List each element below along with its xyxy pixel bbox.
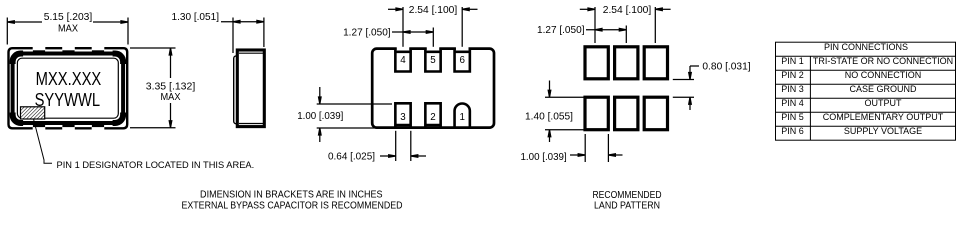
dimension 1.00 [.039] (land pad width)	[570, 134, 623, 162]
svg-text:OUTPUT: OUTPUT	[865, 98, 903, 108]
svg-text:3: 3	[400, 112, 406, 123]
dimension 1.00 [.039] (bottom view, pad height)	[317, 87, 396, 142]
svg-text:1.40 [.055]: 1.40 [.055]	[525, 112, 573, 123]
land pad top-left	[585, 47, 608, 79]
land pad bottom-left	[585, 97, 608, 130]
package inner seam rect	[17, 58, 118, 118]
svg-text:0.64 [.025]: 0.64 [.025]	[328, 152, 375, 163]
svg-text:MAX: MAX	[161, 92, 181, 103]
svg-text:4: 4	[400, 55, 406, 66]
svg-text:CASE GROUND: CASE GROUND	[849, 84, 917, 94]
svg-text:2.54 [.100]: 2.54 [.100]	[603, 5, 652, 16]
svg-text:DIMENSION IN BRACKETS ARE IN I: DIMENSION IN BRACKETS ARE IN INCHES	[200, 190, 383, 201]
svg-text:0.80 [.031]: 0.80 [.031]	[702, 61, 750, 72]
svg-text:1.30 [.051]: 1.30 [.051]	[172, 12, 220, 23]
pad 6	[455, 46, 470, 71]
svg-text:MAX: MAX	[58, 23, 78, 34]
land pad bottom-mid	[615, 97, 638, 130]
svg-text:5.15 [.203]: 5.15 [.203]	[44, 12, 93, 23]
svg-text:COMPLEMENTARY OUTPUT: COMPLEMENTARY OUTPUT	[823, 112, 944, 122]
svg-text:PIN 3: PIN 3	[781, 84, 804, 94]
pad 3	[395, 103, 410, 128]
svg-text:PIN 5: PIN 5	[781, 112, 804, 122]
svg-text:MXX.XXX: MXX.XXX	[36, 68, 102, 89]
pad 2	[425, 103, 440, 128]
pin 1 hatched designator box	[21, 107, 45, 119]
package outer outline with castellation notches	[9, 48, 128, 128]
svg-text:1.27 [.050]: 1.27 [.050]	[537, 25, 585, 36]
svg-text:6: 6	[459, 55, 465, 66]
side view lid (left thin rect)	[234, 56, 242, 124]
castellation bumps on thick rect, bottom	[33, 121, 45, 127]
svg-text:PIN CONNECTIONS: PIN CONNECTIONS	[824, 42, 908, 52]
dimension 0.64 [.025] (bottom view, pad width)	[380, 131, 426, 161]
bottom view body	[372, 49, 494, 128]
svg-text:PIN 4: PIN 4	[781, 98, 804, 108]
land pad top-right	[644, 47, 667, 79]
pad 5	[425, 46, 440, 71]
side view seam lines	[239, 52, 263, 54]
svg-text:PIN 6: PIN 6	[781, 126, 804, 136]
svg-text:LAND PATTERN: LAND PATTERN	[594, 201, 660, 212]
pad 1 (arched top = pin 1)	[455, 103, 470, 128]
package thick inner body rect	[13, 54, 124, 124]
svg-text:PIN 1 DESIGNATOR LOCATED IN TH: PIN 1 DESIGNATOR LOCATED IN THIS AREA.	[57, 160, 255, 170]
dimension 1.40 [.055] (land pad height)	[545, 81, 584, 143]
svg-text:TRI-STATE OR NO CONNECTION: TRI-STATE OR NO CONNECTION	[813, 56, 953, 66]
dimension 2.54 [.100] (land pattern)	[580, 7, 671, 43]
svg-text:1.27 [.050]: 1.27 [.050]	[343, 27, 391, 38]
dimension 3.35 [.132] MAX (top view height)	[130, 48, 176, 128]
svg-text:1.00 [.039]: 1.00 [.039]	[297, 111, 343, 122]
svg-text:5: 5	[430, 55, 436, 66]
svg-text:EXTERNAL BYPASS CAPACITOR IS R: EXTERNAL BYPASS CAPACITOR IS RECOMMENDED	[182, 201, 403, 212]
dimension 0.80 [.031] (land pattern row gap)	[673, 66, 699, 110]
svg-text:1: 1	[459, 112, 464, 123]
side view body	[237, 50, 264, 127]
dimension 1.30 [.051]	[221, 18, 264, 54]
svg-text:NO CONNECTION: NO CONNECTION	[845, 70, 922, 80]
leader line from hatch box	[34, 119, 53, 163]
svg-text:1.00 [.039]: 1.00 [.039]	[521, 152, 567, 163]
land pad bottom-right	[644, 97, 667, 130]
dimension 1.27 [.050] (land pattern)	[586, 26, 626, 44]
dimension 5.15 [.203] MAX	[7, 18, 128, 45]
castellation bumps on thick rect, top	[33, 50, 45, 55]
svg-text:SUPPLY VOLTAGE: SUPPLY VOLTAGE	[844, 126, 922, 136]
land pad top-mid	[615, 47, 638, 79]
dimension 1.27 [.050] (bottom view)	[392, 28, 433, 47]
dimension 2.54 [.100] (bottom view)	[388, 7, 478, 47]
svg-text:2.54 [.100]: 2.54 [.100]	[409, 5, 458, 16]
svg-text:PIN 1: PIN 1	[781, 56, 804, 66]
pad 4	[395, 46, 410, 71]
svg-text:3.35 [.132]: 3.35 [.132]	[146, 81, 196, 92]
svg-text:PIN 2: PIN 2	[781, 70, 804, 80]
svg-text:2: 2	[430, 112, 435, 123]
package corner reinforcements	[13, 54, 124, 124]
